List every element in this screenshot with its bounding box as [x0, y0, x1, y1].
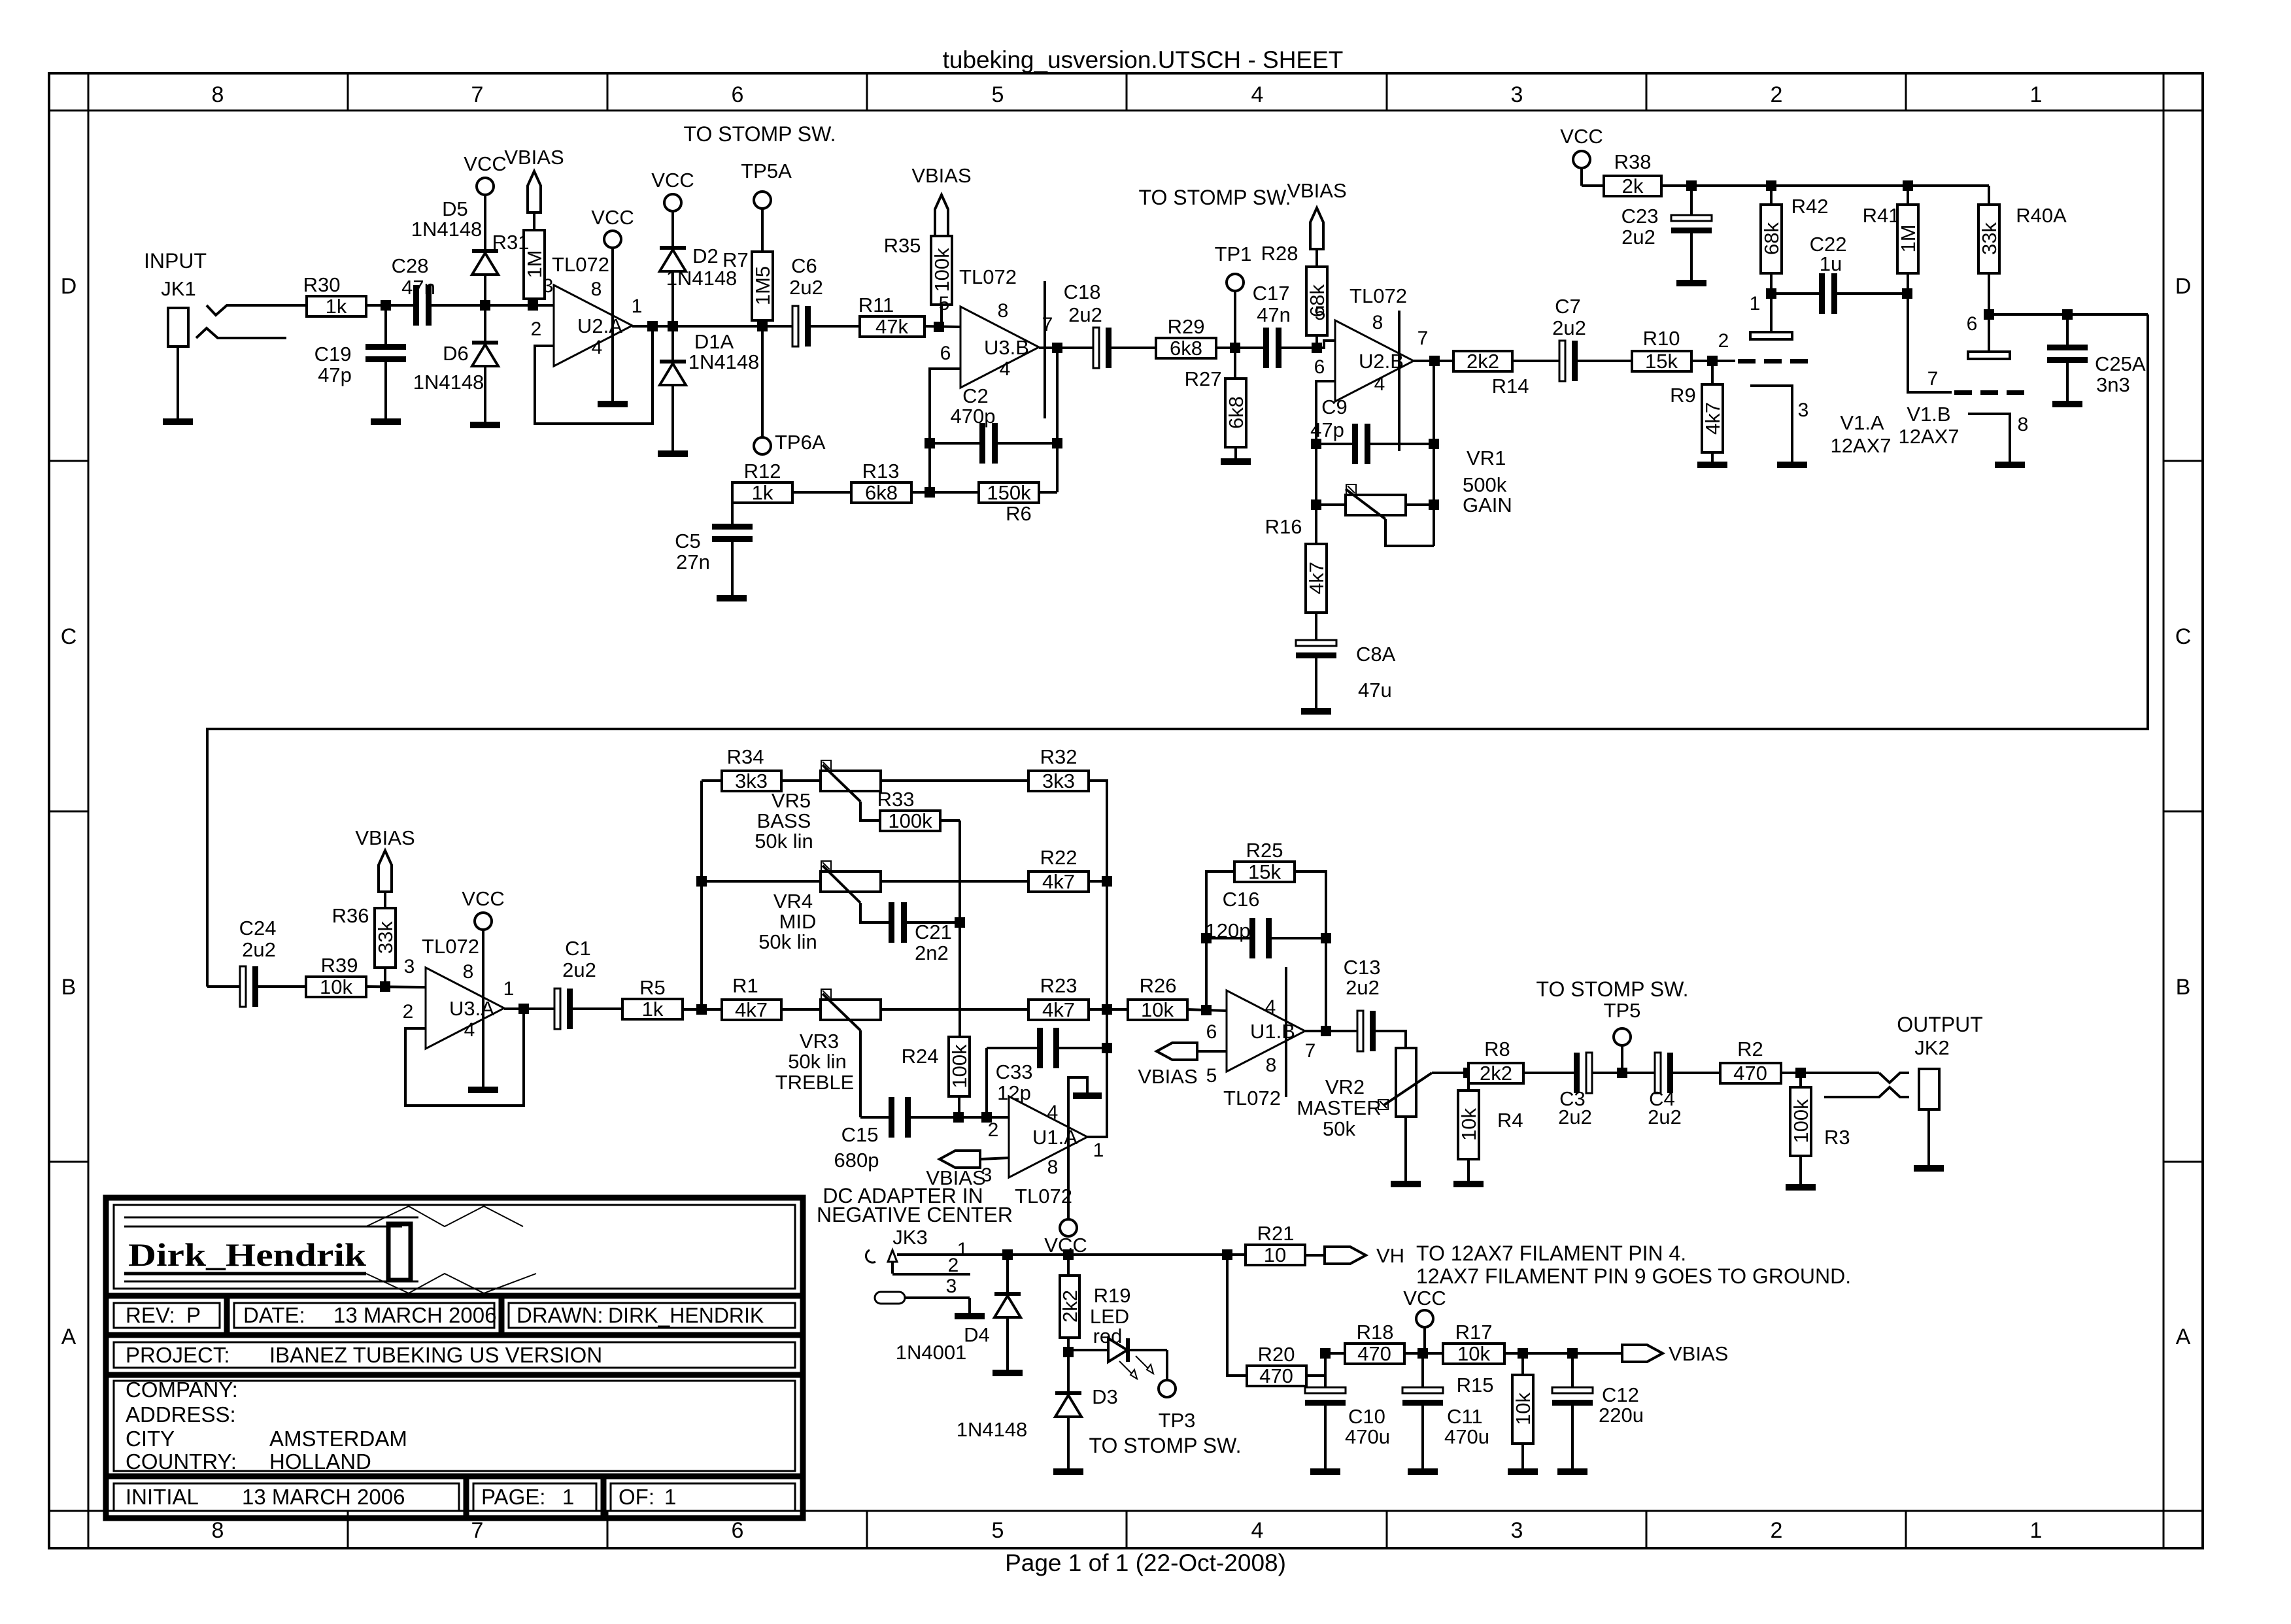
power VCC at U1.A	[1068, 1077, 1087, 1220]
resistor R24 100k	[949, 1037, 970, 1096]
svg-text:15k: 15k	[1248, 860, 1281, 883]
svg-text:R8: R8	[1484, 1038, 1510, 1060]
svg-text:R36: R36	[332, 904, 369, 927]
svg-text:VBIAS: VBIAS	[1287, 179, 1346, 202]
svg-text:tubeking_usversion.UTSCH - SHE: tubeking_usversion.UTSCH - SHEET	[943, 46, 1344, 73]
capacitor C24 2u2	[207, 985, 236, 988]
resistor R19 2k2	[1067, 1255, 1070, 1276]
wire U3.B output	[1039, 347, 1091, 349]
ground D3	[1053, 1468, 1083, 1475]
svg-text:33k: 33k	[374, 921, 397, 954]
svg-text:R13: R13	[862, 460, 900, 482]
svg-text:R15: R15	[1457, 1374, 1494, 1396]
capacitor C16 120p	[1206, 937, 1250, 939]
wire JK3 pin1 rail	[897, 1253, 1246, 1256]
diode D2 1N4148	[671, 211, 674, 246]
svg-text:R4: R4	[1497, 1109, 1523, 1132]
svg-text:1u: 1u	[1820, 252, 1842, 275]
node R15	[1518, 1348, 1528, 1359]
svg-text:DATE:: DATE:	[243, 1303, 305, 1327]
svg-text:TO STOMP SW.: TO STOMP SW.	[684, 122, 836, 146]
wire C13 to VR2	[1376, 1031, 1406, 1048]
ground JK1	[163, 418, 193, 425]
VBIAS arrow U1.B pin5	[1157, 1043, 1197, 1060]
node C16 left	[1201, 933, 1212, 943]
resistor R39 10k	[306, 977, 366, 997]
power VBIAS at R35	[935, 195, 948, 236]
svg-text:1: 1	[562, 1485, 574, 1509]
wire R11 to U3.B	[925, 326, 960, 327]
svg-text:4k7: 4k7	[1042, 870, 1075, 893]
node R42	[1766, 180, 1776, 191]
svg-text:C: C	[61, 624, 77, 649]
svg-text:U1.A: U1.A	[1032, 1126, 1078, 1149]
svg-text:R30: R30	[303, 273, 341, 296]
svg-text:3: 3	[946, 1276, 957, 1297]
svg-text:JK2: JK2	[1914, 1036, 1949, 1059]
svg-text:TO STOMP SW.: TO STOMP SW.	[1536, 977, 1689, 1001]
svg-text:470: 470	[1733, 1062, 1767, 1085]
svg-text:7: 7	[1417, 328, 1429, 349]
resistor R15 10k	[1521, 1353, 1524, 1375]
node V1.B plate pin6	[1984, 309, 1994, 320]
svg-text:8: 8	[212, 82, 224, 107]
svg-text:10k: 10k	[1457, 1108, 1480, 1141]
svg-text:R25: R25	[1246, 839, 1283, 862]
node R36	[380, 981, 390, 992]
wire U3.B pin6	[930, 369, 960, 443]
svg-text:6: 6	[940, 343, 951, 364]
feedback column U2.B	[1315, 424, 1317, 505]
svg-text:COUNTRY:: COUNTRY:	[126, 1449, 237, 1474]
ground JK2	[1914, 1165, 1944, 1172]
svg-text:6k8: 6k8	[1225, 396, 1247, 429]
svg-text:R22: R22	[1040, 846, 1078, 869]
svg-text:470u: 470u	[1444, 1425, 1489, 1448]
svg-text:OUTPUT: OUTPUT	[1897, 1013, 1983, 1036]
node C21 right	[955, 917, 965, 928]
resistor R1 4k7	[702, 1008, 722, 1011]
ground D6	[470, 422, 500, 428]
svg-text:12AX7: 12AX7	[1898, 425, 1959, 448]
power VBIAS at R36	[379, 851, 392, 892]
svg-text:C11: C11	[1447, 1405, 1483, 1428]
capacitor C21 2n2	[882, 921, 889, 924]
svg-text:R28: R28	[1261, 242, 1298, 265]
svg-text:3: 3	[543, 275, 554, 297]
svg-text:TL072: TL072	[1015, 1185, 1072, 1208]
svg-text:13 MARCH 2006: 13 MARCH 2006	[333, 1303, 496, 1327]
svg-text:5: 5	[992, 82, 1004, 107]
capacitor C4 2u2	[1648, 1072, 1655, 1074]
resistor R33 100k	[880, 811, 940, 831]
svg-text:4k7: 4k7	[735, 998, 768, 1021]
test point TP5A	[754, 192, 771, 209]
node R4 R8	[1463, 1068, 1474, 1078]
svg-text:D1A: D1A	[694, 330, 734, 353]
resistor R36 33k	[375, 908, 396, 968]
svg-text:INPUT: INPUT	[144, 249, 207, 273]
ground VR2	[1391, 1181, 1421, 1187]
node C33 left leg	[981, 1112, 992, 1123]
capacitor C28	[407, 304, 413, 307]
svg-text:8: 8	[463, 961, 474, 983]
svg-text:D4: D4	[964, 1323, 990, 1346]
diode D5 1N4148	[484, 195, 486, 249]
svg-text:1M: 1M	[523, 250, 546, 278]
svg-text:R40A: R40A	[2016, 204, 2067, 227]
svg-text:R12: R12	[744, 460, 781, 482]
svg-text:VR4: VR4	[773, 890, 813, 913]
resistor R9 4k7	[1711, 361, 1714, 384]
node C9 left	[1311, 439, 1321, 449]
capacitor C1 2u2	[548, 1007, 554, 1010]
svg-text:A: A	[61, 1325, 76, 1349]
svg-text:A: A	[2176, 1325, 2191, 1349]
wire U2.B output	[1414, 360, 1453, 362]
svg-text:VCC: VCC	[591, 206, 634, 229]
svg-text:TL072: TL072	[552, 253, 609, 276]
svg-text:VBIAS: VBIAS	[504, 146, 564, 169]
wire U3.A output	[504, 1007, 555, 1010]
svg-text:R9: R9	[1670, 384, 1696, 407]
svg-text:2n2: 2n2	[915, 941, 949, 964]
svg-text:D: D	[2175, 274, 2192, 299]
svg-text:150k: 150k	[987, 481, 1031, 504]
svg-text:2k2: 2k2	[1467, 350, 1499, 373]
power VCC at D5	[477, 178, 494, 195]
svg-text:1: 1	[664, 1485, 676, 1509]
node U1.B out	[1321, 1026, 1331, 1036]
test point TP5	[1621, 1045, 1623, 1073]
svg-text:2u2: 2u2	[789, 276, 823, 299]
tube V1.A grid dashes	[1738, 359, 1756, 364]
node R7	[757, 321, 768, 331]
svg-text:C24: C24	[239, 917, 277, 939]
svg-text:VCC: VCC	[651, 169, 694, 192]
svg-text:1: 1	[503, 978, 515, 1000]
resistor R16 4k7	[1315, 505, 1317, 544]
svg-text:4k7: 4k7	[1701, 402, 1724, 435]
capacitor C8A 47u	[1315, 634, 1317, 640]
svg-text:TO STOMP SW.: TO STOMP SW.	[1089, 1434, 1242, 1457]
svg-text:8: 8	[591, 279, 602, 300]
svg-text:VBIAS: VBIAS	[1138, 1065, 1197, 1088]
ground C23	[1676, 280, 1706, 286]
svg-text:Dirk_Hendrik: Dirk_Hendrik	[128, 1236, 366, 1273]
svg-text:R38: R38	[1614, 150, 1652, 173]
svg-text:VBIAS: VBIAS	[355, 826, 415, 849]
svg-text:13 MARCH 2006: 13 MARCH 2006	[242, 1485, 405, 1509]
svg-text:R31: R31	[492, 231, 530, 254]
capacitor C2 470p	[930, 442, 976, 445]
resistor R21 10	[1246, 1245, 1305, 1265]
svg-text:R7: R7	[722, 248, 749, 271]
resistor R20 470	[1247, 1366, 1306, 1386]
diode D4 1N4001	[1006, 1255, 1009, 1292]
node R28	[1312, 343, 1322, 353]
svg-text:C25A: C25A	[2095, 352, 2146, 375]
wire VCC rail right	[1661, 184, 1989, 187]
svg-text:VH: VH	[1376, 1244, 1404, 1267]
resistor R32 3k3	[1028, 771, 1089, 791]
svg-text:8: 8	[212, 1518, 224, 1543]
svg-text:2k: 2k	[1622, 175, 1644, 197]
capacitor C17 47n	[1257, 347, 1263, 349]
svg-text:TP3: TP3	[1159, 1409, 1196, 1432]
feedback column U1.B left	[1206, 871, 1234, 1010]
wire plate node to C22	[1771, 292, 1818, 295]
svg-text:2u2: 2u2	[1558, 1106, 1592, 1128]
svg-text:C28: C28	[392, 254, 429, 277]
svg-text:2: 2	[1771, 1518, 1783, 1543]
node input A	[381, 300, 391, 311]
svg-text:8: 8	[1266, 1055, 1277, 1076]
potentiometer VR5 BASS 50k lin	[781, 779, 821, 782]
resistor R25 15k	[1234, 862, 1295, 882]
power VCC at R18	[1416, 1310, 1433, 1327]
power VCC at U3.A	[475, 913, 492, 930]
svg-text:47k: 47k	[875, 315, 908, 338]
svg-text:6: 6	[732, 82, 744, 107]
feedback wire U3.A	[405, 1009, 524, 1106]
svg-text:TL072: TL072	[1223, 1087, 1281, 1109]
svg-text:COMPANY:: COMPANY:	[126, 1378, 238, 1402]
resistor R40A 33k	[1988, 186, 1990, 205]
svg-text:JK1: JK1	[161, 277, 195, 300]
svg-text:R16: R16	[1265, 515, 1302, 538]
wire JK1 tip to R30	[227, 304, 307, 307]
svg-text:1: 1	[1750, 293, 1761, 314]
wire R29 to C17	[1216, 347, 1259, 349]
op-amp U2.B	[1335, 320, 1414, 401]
svg-text:470u: 470u	[1345, 1425, 1390, 1448]
svg-text:U2.A: U2.A	[577, 314, 622, 337]
svg-text:1N4001: 1N4001	[896, 1341, 967, 1364]
svg-text:6: 6	[1967, 313, 1978, 335]
resistor R34 3k3	[702, 779, 722, 782]
svg-text:ADDRESS:: ADDRESS:	[126, 1402, 236, 1427]
svg-text:NEGATIVE CENTER: NEGATIVE CENTER	[817, 1203, 1013, 1226]
node D4	[1002, 1249, 1013, 1260]
svg-text:VCC: VCC	[462, 887, 504, 910]
node R20 branch	[1222, 1249, 1232, 1260]
svg-text:TREBLE: TREBLE	[775, 1071, 855, 1094]
svg-text:VCC: VCC	[1560, 125, 1603, 148]
diode D1A 1N4148	[671, 326, 674, 360]
node C12	[1567, 1348, 1578, 1359]
svg-text:U1.B: U1.B	[1250, 1020, 1295, 1043]
svg-text:REV:: REV:	[126, 1303, 175, 1327]
svg-text:10k: 10k	[1512, 1393, 1535, 1425]
ground R27	[1221, 458, 1251, 465]
resistor R3 100k	[1799, 1073, 1802, 1087]
svg-text:4: 4	[1251, 1518, 1264, 1543]
LED red	[1108, 1338, 1127, 1362]
svg-text:R21: R21	[1257, 1222, 1295, 1245]
tube V1.B cathode	[1968, 414, 2010, 462]
left column tone stack	[700, 781, 703, 1009]
wire C6 to R11	[811, 325, 860, 328]
svg-text:4: 4	[1251, 82, 1264, 107]
op-amp U1.A	[1009, 1096, 1087, 1177]
svg-text:U2.B: U2.B	[1359, 350, 1404, 373]
ground V1.B cathode	[1995, 462, 2025, 468]
svg-text:1N4148: 1N4148	[411, 218, 483, 241]
capacitor C5 27n	[731, 492, 734, 526]
svg-text:TO 12AX7 FILAMENT PIN 4.: TO 12AX7 FILAMENT PIN 4.	[1416, 1242, 1686, 1265]
svg-text:C21: C21	[915, 921, 952, 943]
capacitor C25A 3n3	[2066, 314, 2069, 347]
svg-text:TL072: TL072	[422, 935, 479, 958]
capacitor C10 470u	[1324, 1353, 1327, 1386]
svg-text:10k: 10k	[1457, 1342, 1490, 1365]
svg-text:R33: R33	[877, 788, 915, 811]
svg-text:7: 7	[1927, 368, 1939, 390]
svg-text:3: 3	[1798, 399, 1809, 421]
svg-text:PAGE:: PAGE:	[481, 1485, 545, 1509]
node VCC rail	[1063, 1249, 1074, 1260]
svg-text:2u2: 2u2	[1346, 976, 1380, 999]
resistor R14 2k2	[1453, 351, 1512, 371]
wire C18 to R29	[1112, 347, 1156, 349]
resistor R17 10k	[1443, 1344, 1504, 1364]
svg-text:C8A: C8A	[1356, 643, 1396, 666]
ground D1A	[658, 450, 688, 457]
svg-text:7: 7	[471, 1518, 484, 1543]
node U3.B out	[1052, 343, 1062, 353]
svg-text:DRAWN:: DRAWN:	[517, 1303, 603, 1327]
svg-text:47n: 47n	[1257, 303, 1291, 326]
svg-text:15k: 15k	[1645, 350, 1678, 373]
svg-text:R41: R41	[1863, 204, 1900, 227]
svg-text:1: 1	[632, 296, 643, 317]
ground R4	[1453, 1181, 1484, 1187]
svg-text:5: 5	[992, 1518, 1004, 1543]
capacitor C18 2u2	[1087, 347, 1093, 349]
svg-text:2: 2	[531, 318, 542, 340]
resistor R23 4k7	[1028, 1000, 1089, 1020]
svg-text:100k: 100k	[888, 809, 932, 832]
ground R15	[1508, 1468, 1538, 1475]
svg-text:2: 2	[1771, 82, 1783, 107]
node tone stack input	[696, 1004, 707, 1015]
mix column	[1106, 781, 1108, 1138]
svg-text:C18: C18	[1064, 280, 1101, 303]
svg-text:500k: 500k	[1463, 473, 1507, 496]
svg-text:C7: C7	[1555, 295, 1581, 318]
rail line U1.B	[1285, 967, 1287, 1097]
svg-text:R39: R39	[321, 954, 358, 977]
wire C2 left leg	[928, 443, 931, 492]
svg-text:C12: C12	[1602, 1383, 1639, 1406]
svg-text:680p: 680p	[834, 1149, 879, 1172]
svg-text:D3: D3	[1092, 1385, 1118, 1408]
capacitor C13 2u2	[1351, 1030, 1357, 1032]
ground C25A	[2052, 401, 2082, 407]
svg-text:50k: 50k	[1323, 1117, 1355, 1140]
svg-text:TO STOMP SW.: TO STOMP SW.	[1139, 186, 1291, 209]
node LED anode	[1063, 1347, 1074, 1357]
svg-text:50k lin: 50k lin	[755, 830, 813, 853]
node U3.A out	[518, 1004, 529, 1014]
svg-text:R18: R18	[1357, 1321, 1394, 1344]
right column U2.B feedback	[1433, 361, 1435, 546]
svg-text:1M: 1M	[1897, 224, 1920, 252]
op-amp U1.B	[1227, 990, 1305, 1072]
resistor R5 1k	[622, 999, 683, 1019]
svg-text:C1: C1	[565, 937, 591, 960]
svg-text:OF:: OF:	[619, 1485, 654, 1509]
wire U1.B output	[1305, 1030, 1357, 1032]
svg-text:C2: C2	[962, 384, 989, 407]
VBIAS arrow U1.A pin3	[940, 1151, 980, 1168]
node TP5	[1617, 1068, 1627, 1078]
svg-text:D5: D5	[442, 197, 468, 220]
node R6 left	[925, 487, 935, 498]
svg-text:V1.A: V1.A	[1840, 411, 1884, 434]
wire U2.A output	[632, 325, 792, 328]
ground V1.A cathode	[1777, 462, 1807, 468]
wire R32 to mix column	[1089, 781, 1107, 881]
svg-text:470p: 470p	[951, 405, 996, 428]
svg-text:C17: C17	[1253, 282, 1290, 305]
ground U2.A	[598, 401, 628, 407]
resistor R35 100k	[931, 236, 952, 305]
svg-text:12AX7: 12AX7	[1830, 434, 1891, 457]
svg-text:TL072: TL072	[959, 265, 1017, 288]
svg-text:2: 2	[988, 1119, 999, 1141]
svg-text:4: 4	[464, 1019, 475, 1041]
power VCC at D2	[664, 194, 681, 211]
svg-text:2: 2	[403, 1001, 414, 1023]
svg-text:3n3: 3n3	[2096, 373, 2130, 396]
wire C28 to U2.A pin3	[432, 304, 554, 307]
resistor R8 2k2	[1468, 1063, 1523, 1083]
svg-text:VBIAS: VBIAS	[911, 164, 971, 187]
svg-text:TP5A: TP5A	[741, 160, 792, 182]
resistor R10 15k	[1632, 351, 1691, 371]
node V1.A plate pin1	[1766, 288, 1776, 299]
resistor R2 470	[1720, 1063, 1781, 1083]
node C23	[1686, 180, 1697, 191]
node R41 bottom	[1902, 288, 1912, 299]
op-amp U3.A	[426, 968, 504, 1049]
op-amp U3.B	[960, 307, 1039, 388]
svg-text:CITY: CITY	[126, 1427, 175, 1451]
svg-text:TP1: TP1	[1215, 243, 1252, 265]
svg-text:7: 7	[471, 82, 484, 107]
diode D3 1N4148	[1067, 1352, 1070, 1391]
svg-text:7: 7	[1305, 1040, 1316, 1062]
power VCC at U2.A	[604, 231, 621, 248]
svg-text:C16: C16	[1223, 888, 1260, 911]
tube V1.A cathode	[1750, 386, 1792, 462]
svg-text:R2: R2	[1737, 1038, 1763, 1060]
svg-text:3: 3	[1511, 82, 1523, 107]
svg-text:red: red	[1093, 1325, 1123, 1347]
svg-text:C19: C19	[314, 343, 352, 365]
node R31	[528, 300, 538, 311]
svg-text:D: D	[61, 274, 77, 299]
svg-text:1M5: 1M5	[751, 266, 774, 305]
svg-text:MID: MID	[779, 910, 817, 933]
svg-text:R35: R35	[884, 234, 921, 257]
tube V1.B plate	[1988, 314, 1990, 352]
svg-text:P: P	[186, 1303, 201, 1327]
svg-text:VCC: VCC	[1403, 1287, 1446, 1310]
svg-text:C33: C33	[996, 1060, 1033, 1083]
